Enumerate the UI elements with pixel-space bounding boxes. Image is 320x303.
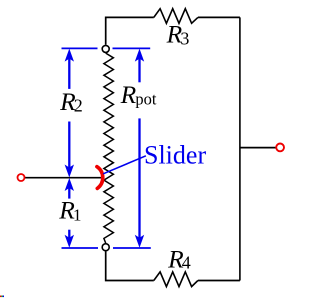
wire right vertical [239, 17, 241, 280]
dimension line top right segment [113, 47, 151, 49]
wiper wire from left terminal [25, 177, 102, 179]
svg-text:4: 4 [182, 253, 191, 273]
pot bottom terminal node circle [102, 244, 109, 251]
wire top-left from potentiometer top to corner and across [106, 17, 154, 44]
dimension line bottom left segment [62, 247, 99, 249]
rgb artifact dots bottom-left [0, 296, 4, 298]
R1 dimension arrow upper (up arrowhead + shaft) [65, 178, 74, 199]
slider contact red arc [97, 167, 103, 189]
dimension line top left segment [62, 47, 98, 49]
resistor R4 [154, 272, 198, 287]
Rpot dimension arrow lower (shaft + down arrowhead) [135, 118, 144, 247]
pot top terminal node circle [102, 45, 109, 52]
R2 dimension arrow lower (shaft + down arrowhead) [65, 122, 74, 178]
R2 dimension arrow upper (up arrowhead + shaft) [65, 49, 74, 89]
wire from R3 to top-right corner [198, 16, 240, 18]
potentiometer Rpot body zigzag [104, 53, 114, 243]
R1 dimension arrow lower (shaft + down arrowhead) [65, 230, 74, 248]
slider pointer line [103, 156, 146, 174]
terminal right (red open circle) [276, 144, 284, 152]
wire from R4 to bottom-right corner [198, 280, 240, 282]
wire stub to right terminal [240, 147, 276, 149]
svg-text:2: 2 [74, 96, 83, 116]
svg-text:3: 3 [180, 29, 189, 49]
dimension line bottom right segment [113, 247, 151, 249]
svg-text:R: R [120, 80, 137, 109]
svg-text:pot: pot [135, 90, 157, 109]
svg-text:Slider: Slider [144, 141, 206, 170]
terminal left (red open circle) [18, 174, 25, 181]
wire bottom from pot bottom to corner [106, 251, 154, 280]
Rpot dimension arrow upper (up arrowhead + shaft) [135, 49, 144, 83]
svg-text:1: 1 [73, 206, 82, 225]
resistor R3 [154, 9, 198, 24]
